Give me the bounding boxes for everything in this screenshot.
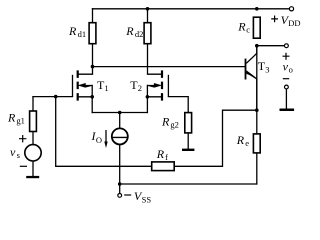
svg-text:c: c: [246, 24, 250, 34]
svg-text:3: 3: [265, 64, 269, 74]
svg-text:f: f: [165, 152, 168, 162]
svg-text:d2: d2: [135, 29, 144, 39]
svg-text:2: 2: [138, 83, 142, 93]
svg-text:R: R: [161, 115, 170, 129]
svg-text:R: R: [237, 19, 246, 33]
svg-text:v: v: [10, 145, 16, 159]
svg-text:O: O: [96, 135, 102, 145]
svg-text:o: o: [289, 64, 293, 74]
svg-text:R: R: [236, 133, 245, 147]
svg-text:R: R: [7, 110, 16, 124]
svg-text:R: R: [156, 147, 165, 161]
svg-text:s: s: [17, 150, 20, 160]
svg-text:d1: d1: [78, 29, 87, 39]
svg-text:e: e: [245, 138, 249, 148]
svg-text:R: R: [125, 24, 134, 38]
svg-text:g2: g2: [170, 120, 179, 130]
svg-text:g1: g1: [16, 116, 25, 126]
svg-text:1: 1: [104, 83, 108, 93]
svg-text:DD: DD: [288, 18, 300, 28]
svg-text:SS: SS: [142, 194, 152, 204]
svg-text:R: R: [68, 24, 77, 38]
